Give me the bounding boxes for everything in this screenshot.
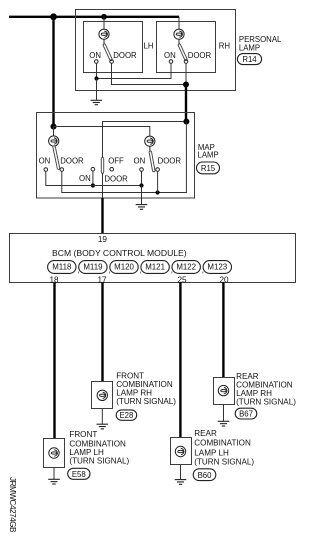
wire map LH bulb feed bbox=[53, 127, 55, 136]
svg-text:REAR: REAR bbox=[236, 372, 259, 381]
svg-text:M120: M120 bbox=[114, 263, 134, 272]
svg-text:DOOR: DOOR bbox=[188, 51, 212, 60]
svg-text:ON: ON bbox=[89, 51, 101, 60]
wire branch down to map lamp bbox=[52, 17, 54, 127]
node feed/branch junction bbox=[50, 13, 57, 20]
bulb B67 bbox=[218, 385, 228, 395]
wire map center ON contact drop bbox=[92, 171, 94, 186]
svg-text:M118: M118 bbox=[52, 263, 72, 272]
connector R15 bbox=[197, 162, 220, 174]
svg-text:ON: ON bbox=[164, 51, 176, 60]
wire map RH DOOR contact drop bbox=[157, 171, 159, 192]
rear combination lamp RH box bbox=[214, 378, 235, 405]
connector M123 bbox=[203, 261, 231, 274]
wire BCM pin 25 to B60 bbox=[179, 283, 181, 439]
ground (E58) bbox=[48, 479, 60, 484]
svg-text:ON: ON bbox=[79, 174, 91, 183]
connector E58 bbox=[68, 468, 90, 479]
node map feed junction bbox=[51, 124, 57, 130]
ground (personal lamp) bbox=[91, 100, 103, 104]
svg-text:LH: LH bbox=[144, 42, 154, 51]
svg-text:DOOR: DOOR bbox=[104, 174, 128, 183]
connector M118 bbox=[48, 261, 76, 274]
ground (map lamp) bbox=[136, 205, 148, 210]
wire map switch to BCM pin 19 bbox=[102, 174, 104, 199]
wire map door feed line bbox=[103, 122, 187, 158]
front combination lamp RH box bbox=[92, 382, 113, 409]
bulb B60 bbox=[175, 446, 185, 456]
svg-text:19: 19 bbox=[98, 235, 108, 244]
switch map LH (ON/DOOR) bbox=[54, 147, 58, 168]
svg-text:R15: R15 bbox=[201, 164, 216, 173]
connector M122 bbox=[172, 261, 200, 274]
svg-text:E58: E58 bbox=[72, 470, 86, 479]
svg-text:OFF: OFF bbox=[108, 156, 124, 165]
wire map ON net bbox=[46, 171, 142, 185]
svg-text:M123: M123 bbox=[207, 263, 227, 272]
svg-text:R14: R14 bbox=[242, 55, 257, 64]
bulb map LH bbox=[49, 136, 59, 146]
svg-text:(TURN SIGNAL): (TURN SIGNAL) bbox=[236, 397, 296, 406]
node door feed junction bbox=[183, 119, 189, 125]
wire E28 to ground bbox=[101, 409, 103, 424]
connector M119 bbox=[79, 261, 107, 274]
svg-text:(TURN SIGNAL): (TURN SIGNAL) bbox=[69, 457, 129, 466]
svg-text:LAMP: LAMP bbox=[239, 44, 260, 53]
bulb personal LH bbox=[99, 29, 109, 39]
wire personal ON net to ground bbox=[97, 63, 172, 78]
svg-text:FRONT: FRONT bbox=[116, 371, 144, 380]
wire map DOOR net bbox=[62, 122, 187, 193]
bulb map RH bbox=[145, 136, 155, 146]
personal lamp LH inner box bbox=[84, 22, 143, 73]
svg-text:DOOR: DOOR bbox=[158, 156, 182, 165]
svg-text:M119: M119 bbox=[83, 263, 103, 272]
BCM box bbox=[10, 234, 296, 283]
svg-text:JRMWC4274GB: JRMWC4274GB bbox=[8, 477, 17, 533]
svg-text:B67: B67 bbox=[239, 409, 253, 418]
connector M121 bbox=[141, 261, 169, 274]
ground (E28) bbox=[97, 424, 109, 429]
switch personal LH (ON/DOOR) bbox=[103, 39, 105, 44]
personal lamp RH inner box bbox=[157, 22, 216, 73]
bulb E28 bbox=[97, 390, 107, 400]
wire BCM pin 17 to E28 bbox=[101, 283, 103, 383]
bulb E58 bbox=[49, 448, 59, 458]
wire BCM pin 20 to B67 bbox=[222, 283, 224, 378]
map lamp box bbox=[37, 113, 195, 199]
svg-text:REAR: REAR bbox=[194, 429, 217, 438]
connector R14 bbox=[237, 54, 261, 65]
ground (B67) bbox=[218, 421, 230, 426]
svg-text:E28: E28 bbox=[119, 411, 133, 420]
svg-text:LAMP LH: LAMP LH bbox=[194, 448, 229, 457]
wire map feed cross to RH bulb bbox=[54, 127, 150, 137]
wire main battery feed bbox=[9, 16, 179, 18]
ground (B60) bbox=[175, 480, 187, 485]
wire RH personal lamp feed drop bbox=[178, 17, 180, 30]
svg-text:DOOR: DOOR bbox=[113, 51, 137, 60]
personal lamp outer box bbox=[76, 10, 236, 91]
connector M120 bbox=[110, 261, 138, 274]
svg-text:25: 25 bbox=[177, 275, 187, 284]
svg-text:BCM (BODY CONTROL MODULE): BCM (BODY CONTROL MODULE) bbox=[52, 248, 187, 258]
node feed/LH lamp junction bbox=[101, 14, 107, 20]
switch map center (ON/OFF/DOOR) bbox=[101, 159, 104, 172]
svg-text:FRONT: FRONT bbox=[69, 430, 97, 439]
wire E58 to ground bbox=[53, 468, 55, 480]
svg-text:ON: ON bbox=[39, 156, 51, 165]
switch personal RH (ON/DOOR) bbox=[178, 39, 180, 44]
svg-text:RH: RH bbox=[219, 42, 230, 51]
wire LH personal lamp feed drop bbox=[103, 17, 105, 30]
wire B60 to ground bbox=[180, 465, 182, 480]
wire BCM pin 18 to E58 bbox=[53, 283, 55, 440]
connector B67 bbox=[235, 408, 257, 419]
svg-text:ON: ON bbox=[134, 156, 146, 165]
wire door signal trunk bbox=[185, 85, 187, 122]
svg-text:M122: M122 bbox=[176, 263, 196, 272]
rear combination lamp LH box bbox=[171, 438, 192, 465]
svg-text:(TURN SIGNAL): (TURN SIGNAL) bbox=[116, 397, 176, 406]
connector E28 bbox=[116, 410, 137, 420]
svg-text:COMBINATION: COMBINATION bbox=[194, 439, 251, 448]
svg-text:LAMP: LAMP bbox=[198, 151, 219, 160]
wire personal DOOR net bbox=[112, 63, 187, 84]
svg-text:DOOR: DOOR bbox=[60, 156, 84, 165]
node DOOR junction bbox=[183, 82, 189, 88]
switch map RH (ON/DOOR) bbox=[149, 146, 151, 151]
wire map ground stem bbox=[141, 186, 143, 205]
svg-text:(TURN SIGNAL): (TURN SIGNAL) bbox=[194, 458, 254, 467]
front combination lamp LH box bbox=[44, 439, 65, 468]
svg-text:M121: M121 bbox=[145, 263, 165, 272]
svg-text:B60: B60 bbox=[198, 471, 213, 480]
wire B67 to ground bbox=[223, 404, 225, 421]
connector B60 bbox=[193, 469, 216, 481]
bulb personal RH bbox=[174, 29, 184, 39]
